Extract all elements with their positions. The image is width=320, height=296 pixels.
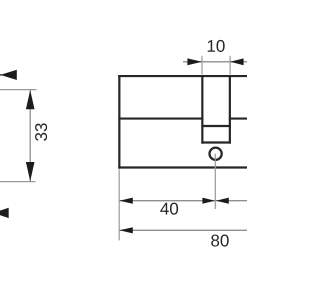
extension line from body left edge (118, 169, 120, 240)
cylinder body top edge (118, 75, 247, 77)
dimension line 40 (119, 200, 247, 202)
extension line bottom (33) (0, 181, 36, 183)
arrowhead chain, points left (216, 198, 229, 204)
cylinder body bottom edge (118, 166, 247, 168)
cylinder body parting line, left segment (118, 117, 203, 119)
arrowhead 33 top, points up (26, 90, 35, 109)
extension line top (33) (0, 89, 37, 91)
cylinder body left edge (118, 75, 120, 169)
label 40 (160, 203, 178, 215)
extension line left (10) (201, 56, 203, 75)
dimension line 80 (119, 229, 247, 231)
arrowhead 40 right, points right (202, 198, 215, 204)
label 33 (rotated) (35, 123, 47, 141)
cam housing bottom edge (201, 141, 231, 143)
dimension line 10 (183, 61, 247, 63)
lone arrowhead lower left, points left (tip clipped) (0, 208, 9, 218)
cam housing inner line (201, 125, 231, 127)
arrowhead 10 left, points right (187, 58, 202, 65)
arrowhead 10 right, points left (230, 58, 244, 65)
extension line right (10) (229, 56, 231, 75)
label 80 (211, 235, 229, 247)
cylinder body parting line, right segment (229, 117, 247, 119)
label 10 (208, 40, 225, 52)
arrowhead 33 bottom, points down (26, 162, 35, 181)
arrowhead 80 left, points left (120, 227, 133, 233)
lone arrowhead upper left, points left (0, 70, 16, 80)
stub line of upper left arrowhead (0, 74, 2, 76)
cam housing left vertical (201, 75, 203, 144)
fixing screw hole (210, 148, 222, 160)
dimension line 33 (29, 90, 31, 181)
extension line from screw hole centre (214, 154, 216, 209)
arrowhead 40 left, points left (120, 198, 133, 204)
cam housing right vertical (229, 75, 231, 144)
